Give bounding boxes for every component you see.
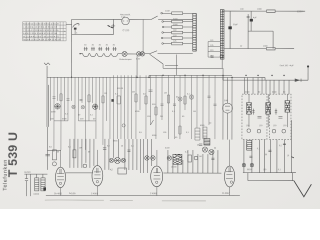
svg-text:0,1: 0,1 [131,145,135,147]
svg-text:a: a [64,31,66,33]
svg-text:Ch 4062: Ch 4062 [54,193,63,195]
svg-text:200: 200 [80,118,84,120]
svg-text:0,5: 0,5 [49,146,53,148]
svg-text:Cl 4067: Cl 4067 [222,193,230,195]
svg-text:R Ux 30 12 4 1s 30 12 4 30 12: R Ux 30 12 4 1s 30 12 4 30 12 4 30 128 [23,23,59,25]
svg-text:8000: 8000 [135,111,140,113]
svg-text:0,1: 0,1 [278,169,282,171]
svg-text:3000: 3000 [62,118,67,120]
svg-text:2M: 2M [160,116,163,118]
svg-text:0,1: 0,1 [90,114,94,116]
svg-text:130: 130 [273,125,277,127]
svg-text:1M: 1M [79,147,82,149]
svg-text:1M: 1M [193,111,196,113]
svg-text:50: 50 [93,118,96,120]
svg-text:1000: 1000 [257,9,262,11]
svg-text:100: 100 [263,169,267,171]
svg-text:Skalenlampen: Skalenlampen [119,59,132,61]
svg-text:30: 30 [99,45,102,47]
svg-text:50: 50 [214,148,217,150]
svg-text:0,5M: 0,5M [165,148,170,150]
svg-text:8 4 30 12 30 4 12 48 4 30 12 4: 8 4 30 12 30 4 12 48 4 30 12 4 12 248 [23,33,58,35]
svg-text:4µF: 4µF [253,17,257,19]
svg-text:1M: 1M [164,93,167,95]
svg-text:1 12 4 30 4 . 12 18 30 4 12 30: 1 12 4 30 4 . 12 18 30 4 12 30 4 4 218 [23,27,58,29]
svg-text:C 30 12 4 12 30 4 55 12 4 30 1: C 30 12 4 12 30 4 55 12 4 30 12 30 155 [23,30,59,32]
svg-text:130: 130 [283,125,287,127]
svg-text:0,1: 0,1 [257,148,261,150]
svg-text:20: 20 [209,123,212,125]
svg-text:5000: 5000 [272,92,277,94]
svg-text:T 539 U: T 539 U [6,132,20,178]
svg-text:5000: 5000 [200,125,205,127]
svg-text:Dr: Dr [240,46,242,48]
svg-text:50: 50 [88,151,91,153]
svg-text:a: a [76,32,78,34]
svg-text:AZ: AZ [110,168,113,171]
svg-text:5000: 5000 [247,169,252,171]
svg-text:80: 80 [283,92,286,94]
svg-text:30: 30 [113,45,116,47]
svg-text:10000: 10000 [171,167,177,169]
svg-text:Ra 30 4 12 30 12 4 228 12 30 4: Ra 30 4 12 30 12 4 228 12 30 4 12 30 228 [23,39,61,41]
svg-text:50: 50 [182,116,185,118]
svg-text:1M: 1M [199,156,202,158]
svg-text:0,2: 0,2 [279,145,283,147]
svg-text:2M: 2M [132,91,135,93]
svg-text:30: 30 [92,45,95,47]
svg-text:0,1: 0,1 [172,111,176,113]
svg-text:80: 80 [258,92,261,94]
svg-text:50µF: 50µF [233,24,238,26]
svg-text:130: 130 [246,125,250,127]
svg-text:10: 10 [287,155,290,157]
svg-text:0,1: 0,1 [68,146,72,148]
svg-text:50: 50 [78,114,81,116]
svg-text:C 4063: C 4063 [91,193,99,195]
svg-text:100: 100 [240,9,244,11]
svg-text:1M: 1M [104,93,107,95]
svg-text:100: 100 [163,132,167,134]
svg-text:130: 130 [259,125,263,127]
svg-text:Sock 190 + 4µF: Sock 190 + 4µF [280,65,295,67]
svg-text:50: 50 [265,154,268,156]
svg-text:0,1A: 0,1A [121,16,126,19]
svg-text:20: 20 [121,145,124,147]
svg-text:5000: 5000 [152,135,157,137]
svg-text:50: 50 [175,137,178,139]
svg-text:C 4065: C 4065 [150,193,158,195]
svg-text:0,1: 0,1 [115,93,119,95]
svg-text:5000: 5000 [113,140,118,142]
svg-text:10000: 10000 [33,194,39,196]
svg-text:0,5M: 0,5M [165,11,170,13]
svg-text:W 12 30 4 4 12 30 375 30 12 4: W 12 30 4 4 12 30 375 30 12 4 30 4 375 [23,36,60,38]
svg-text:2x0,05: 2x0,05 [69,193,76,195]
svg-text:300 20: 300 20 [117,88,124,90]
svg-text:EAB: EAB [224,99,229,102]
svg-text:30: 30 [84,44,87,46]
svg-text:30: 30 [106,45,109,47]
svg-text:220V~: 220V~ [297,10,305,13]
svg-text:6,3V: 6,3V [136,58,141,60]
svg-text:Lautspr.: Lautspr. [24,171,32,174]
svg-text:50: 50 [57,151,60,153]
svg-text:0,5: 0,5 [139,132,143,134]
svg-text:0,1: 0,1 [186,132,190,134]
svg-text:C 2 D: C 2 D [123,28,130,32]
svg-text:5000: 5000 [245,92,250,94]
svg-text:300: 300 [152,104,156,106]
svg-text:100: 100 [50,118,54,120]
svg-text:0,5: 0,5 [107,145,111,147]
svg-text:5000: 5000 [51,111,56,113]
